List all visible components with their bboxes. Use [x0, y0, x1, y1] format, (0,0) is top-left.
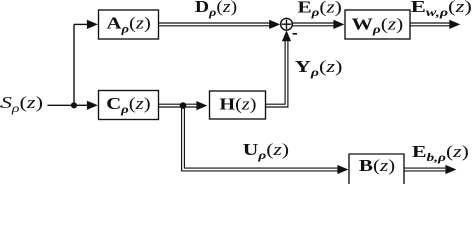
crop artifact dash at left edge [0, 106, 2, 108]
svg-text:Eρ(z): Eρ(z) [298, 0, 342, 19]
arrowhead up into summer [282, 30, 291, 41]
wire: horizontal into A [74, 23, 90, 25]
block H(z) [210, 91, 266, 119]
arrowhead into A [87, 20, 98, 29]
svg-text:Aρ(z): Aρ(z) [107, 14, 151, 35]
node A: junction dot on input [71, 102, 77, 108]
svg-text:Uρ(z): Uρ(z) [243, 141, 289, 161]
wire: double line summer to W input (E signal) [293, 22, 336, 24]
arrowhead into B [337, 165, 348, 174]
block B(z) (bottom edge clipped) [349, 154, 404, 184]
block C_rho(z) [99, 91, 159, 120]
wire: node to C input [74, 104, 90, 106]
wire: double line W output (E_w signal) [410, 22, 452, 24]
svg-text:Cρ(z): Cρ(z) [106, 95, 150, 116]
wire: double line C output to H input [159, 103, 200, 105]
block W_rho(z) [345, 10, 410, 39]
svg-text:Yρ(z): Yρ(z) [295, 58, 343, 80]
block A_rho(z) [99, 10, 159, 39]
wire: double line H output up to summer (Y signal) [266, 39, 286, 104]
arrowhead into summer from A [269, 20, 280, 29]
node B: junction dot after C [180, 102, 187, 109]
arrowhead output E_b [445, 165, 456, 174]
svg-text:Sρ(z): Sρ(z) [1, 93, 43, 115]
minus sign at summer lower input [293, 33, 297, 35]
summer: adder circle with plus [281, 18, 293, 30]
arrowhead into H [196, 101, 207, 110]
wire: double line down from node and right to B (U signal) [182, 106, 340, 171]
wire: double line A output to summer (D signal) [159, 22, 273, 24]
wire: branch up from node [73, 24, 75, 105]
svg-text:H(z): H(z) [219, 95, 256, 114]
arrowhead output E_w [449, 20, 460, 29]
wire: double line B output (E_b signal) [404, 167, 448, 169]
arrowhead into W [333, 20, 344, 29]
arrowhead into C [87, 101, 98, 110]
wire: input S to junction node [48, 104, 75, 106]
svg-text:B(z): B(z) [359, 157, 395, 176]
